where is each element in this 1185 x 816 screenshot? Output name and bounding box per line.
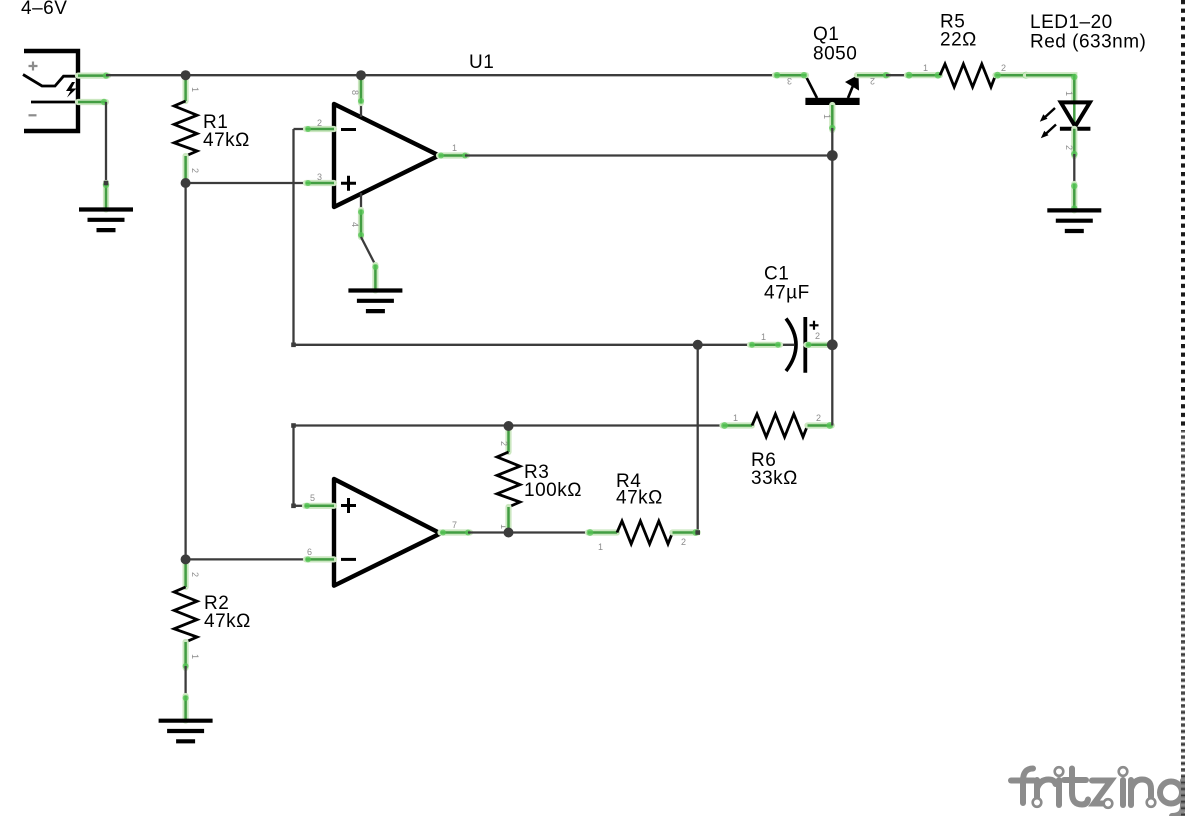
wire LED pin2 — [1071, 129, 1077, 157]
wire LED to ground dark — [1073, 154, 1075, 186]
wire output to Q1 node — [465, 154, 832, 156]
wire U1 pin1 out — [438, 153, 468, 159]
node junction pin8 — [356, 70, 366, 80]
svg-text:2: 2 — [499, 441, 509, 446]
op-amp U1 A — [334, 104, 439, 207]
svg-text:2: 2 — [1001, 63, 1006, 73]
wire pin4 ground lead — [372, 264, 378, 291]
wire R2 pin1 — [183, 642, 189, 669]
svg-text:2: 2 — [1064, 145, 1074, 150]
svg-text:1: 1 — [598, 542, 603, 552]
wire mid vertical to R4 — [697, 345, 699, 533]
ground GND4 — [1047, 210, 1101, 231]
svg-text:Red (633nm): Red (633nm) — [1030, 32, 1146, 53]
resistor R6 — [752, 414, 808, 437]
wire right vertical Q1 to R6 — [831, 156, 833, 426]
wire R6 pin2 — [808, 422, 834, 429]
svg-text:2: 2 — [816, 413, 821, 423]
fritzing logo — [1011, 769, 1183, 816]
wire Q1 pin1 — [829, 105, 835, 131]
wire jack minus pin — [78, 99, 107, 105]
svg-text:U1: U1 — [469, 52, 494, 73]
wire jack ground lead — [103, 182, 109, 210]
svg-text:1: 1 — [733, 413, 738, 423]
svg-text:1: 1 — [822, 114, 832, 119]
node junction R2 top — [181, 554, 191, 564]
svg-text:4: 4 — [350, 222, 360, 227]
wire R1 pin1 — [183, 75, 189, 101]
svg-text:2: 2 — [815, 331, 820, 341]
wire R6 pin1 — [721, 422, 752, 429]
svg-text:6: 6 — [307, 547, 312, 557]
wire U1 pin3 green — [305, 180, 334, 186]
sheet border dashes — [1181, 0, 1185, 816]
node junction R1 top — [181, 70, 191, 80]
svg-text:22Ω: 22Ω — [940, 30, 977, 51]
wire jack plus pin — [78, 72, 109, 78]
svg-text:2: 2 — [317, 118, 322, 128]
wire R2 pin2 — [183, 559, 189, 587]
svg-text:3: 3 — [317, 172, 322, 182]
svg-text:5: 5 — [310, 493, 315, 503]
svg-text:2: 2 — [681, 537, 686, 547]
node junction C1 right — [827, 339, 838, 350]
wire R2 to ground dark — [184, 666, 186, 698]
svg-text:LED1–20: LED1–20 — [1030, 12, 1113, 33]
svg-text:47µF: 47µF — [764, 283, 810, 304]
fritzing logo rings — [1033, 767, 1156, 808]
wire R5 pin2 — [994, 72, 1029, 79]
svg-text:2: 2 — [190, 168, 200, 173]
LED LED1 — [1040, 102, 1091, 138]
wire U1 pin8 — [358, 75, 364, 117]
wire U1 pin5 — [304, 503, 334, 509]
wire left vertical to R2 — [184, 183, 186, 559]
svg-text:1: 1 — [452, 143, 457, 153]
svg-text:1: 1 — [190, 654, 200, 659]
wire LED ground lead — [1071, 183, 1077, 212]
wire U1 pin7 out — [440, 530, 471, 536]
wire Q1 to R5 — [886, 74, 909, 76]
svg-text:1: 1 — [923, 63, 928, 73]
wire Q1 pin1 to node — [831, 128, 833, 156]
wire R1 pin2 — [183, 156, 189, 183]
wire U1 pin6 — [305, 556, 334, 562]
resistor R4 — [617, 521, 673, 544]
svg-text:1: 1 — [761, 332, 766, 342]
ground GND3 — [159, 721, 213, 742]
wire R3 pin1 — [505, 507, 511, 533]
svg-text:Q1: Q1 — [813, 24, 839, 45]
wire LED lead top — [1026, 74, 1078, 102]
wire R4 pin1 — [587, 529, 617, 536]
power jack J1 — [23, 51, 78, 131]
node junction R3 top — [504, 421, 514, 431]
svg-text:47kΩ: 47kΩ — [203, 130, 250, 151]
resistor R3 — [497, 452, 520, 507]
node junction Q1 emitter — [827, 150, 838, 161]
svg-text:47kΩ: 47kΩ — [616, 488, 663, 509]
wire C1 pin1 — [749, 342, 781, 348]
resistor R1 — [174, 101, 197, 156]
node junction R3 bottom — [504, 528, 514, 538]
wire pin6 feed — [186, 558, 308, 560]
wire U1 pin4 — [358, 193, 364, 238]
ground GND2 — [348, 291, 402, 312]
svg-text:C1: C1 — [764, 264, 789, 285]
wire U1 pin2 — [294, 126, 335, 132]
svg-text:47kΩ: 47kΩ — [204, 611, 251, 632]
wire top rail — [106, 74, 775, 76]
op-amp U1 B — [334, 479, 441, 586]
svg-text:1: 1 — [190, 87, 200, 92]
ground GND1 — [79, 210, 133, 231]
wire R5 pin1 — [906, 72, 942, 79]
wire net B horizontal — [294, 424, 725, 426]
svg-text:100kΩ: 100kΩ — [524, 480, 582, 501]
wire pin4 slant — [361, 237, 375, 265]
wire jack minus down — [105, 102, 107, 185]
transistor Q1 — [805, 75, 859, 105]
node junction C1 branch — [693, 340, 703, 350]
wire net B vertical — [292, 426, 294, 507]
wire R4 pin2 — [673, 529, 700, 536]
resistor R5 — [940, 64, 996, 87]
svg-text:2: 2 — [190, 572, 200, 577]
wire pin3 feed — [186, 182, 308, 184]
wire corner caps — [104, 181, 700, 535]
node junction R1 bottom — [181, 178, 191, 188]
wire Q1 pin3 — [774, 72, 807, 78]
wire C1 pin2 — [806, 342, 829, 348]
svg-text:8: 8 — [350, 90, 360, 95]
svg-text:33kΩ: 33kΩ — [751, 468, 798, 489]
wire pin7 to R4 — [468, 531, 590, 533]
svg-text:3: 3 — [787, 76, 792, 86]
svg-text:4–6V: 4–6V — [21, 0, 67, 19]
wire R3 pin2 — [505, 426, 511, 452]
resistor R2 — [174, 587, 197, 642]
wire Q1 pin2 — [857, 72, 889, 78]
wire U1A pin2 net vertical — [292, 129, 294, 345]
svg-text:1: 1 — [1064, 91, 1074, 96]
wire pin5 stub — [294, 505, 308, 507]
svg-text:2: 2 — [870, 76, 875, 86]
wire C1 horizontal — [294, 344, 795, 346]
svg-text:7: 7 — [452, 520, 457, 530]
svg-text:8050: 8050 — [813, 44, 857, 65]
capacitor C1 — [786, 317, 819, 373]
wire R2 ground lead — [183, 695, 189, 721]
